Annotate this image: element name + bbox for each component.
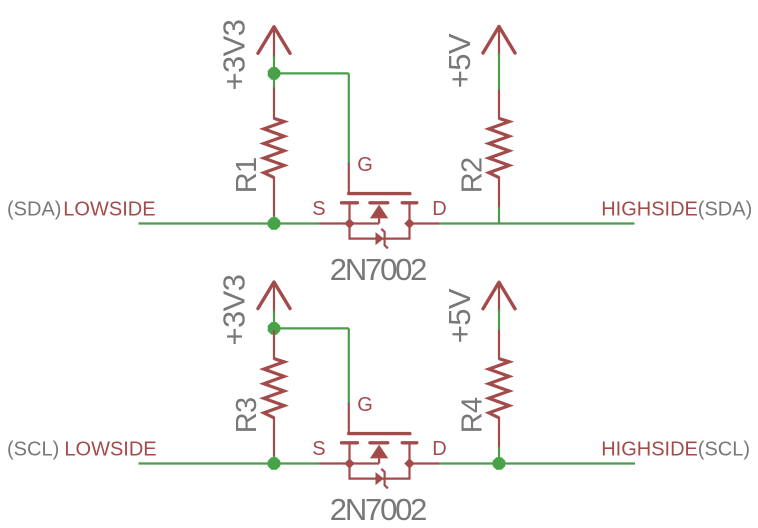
junction R1/LOWSIDE(SDA) — [268, 217, 281, 230]
wire R4 to HIGHSIDE(SCL) net — [498, 447, 500, 464]
resistor R2 — [489, 90, 509, 208]
svg-text:G: G — [357, 154, 373, 176]
wire +3V3 to junction (SDA) — [273, 56, 275, 73]
wire +5V to R2 — [498, 53, 500, 91]
svg-text:R4: R4 — [456, 397, 488, 433]
wire junction to gate column (SDA) — [274, 72, 349, 74]
svg-text:R1: R1 — [231, 158, 263, 193]
junction +3V3/R3/gate (SCL) — [268, 322, 281, 335]
wire LOWSIDE(SCL) net — [139, 462, 320, 464]
svg-text:+3V3: +3V3 — [216, 275, 251, 346]
junction R3/LOWSIDE(SCL) — [268, 457, 281, 470]
wire R1 to LOWSIDE(SDA) net — [273, 216, 275, 224]
svg-text:(SCL): (SCL) — [698, 438, 750, 460]
wire HIGHSIDE(SDA) net — [440, 222, 635, 224]
resistor R4 — [489, 330, 509, 448]
svg-text:(SDA): (SDA) — [698, 198, 752, 220]
transistor Q1 2N7002 — [320, 163, 440, 248]
svg-text:R2: R2 — [456, 158, 488, 193]
wire down to Q1 gate — [348, 73, 350, 164]
svg-text:HIGHSIDE: HIGHSIDE — [601, 438, 698, 460]
svg-text:R3: R3 — [231, 398, 263, 433]
wire R3 to LOWSIDE(SCL) net — [273, 456, 275, 464]
svg-text:G: G — [357, 394, 373, 416]
svg-text:+5V: +5V — [442, 288, 477, 343]
wire down to Q2 gate — [348, 328, 350, 404]
svg-text:S: S — [312, 198, 325, 220]
power symbol +5V (SDA section) — [483, 27, 515, 56]
junction +3V3/R1/gate (SDA) — [268, 67, 281, 80]
svg-text:S: S — [312, 438, 325, 460]
svg-text:LOWSIDE: LOWSIDE — [64, 438, 156, 460]
svg-text:(SDA): (SDA) — [7, 198, 61, 220]
svg-text:2N7002: 2N7002 — [330, 252, 426, 287]
svg-text:D: D — [432, 198, 446, 220]
wire junction to R1 — [273, 73, 275, 88]
svg-text:+5V: +5V — [442, 33, 477, 88]
svg-text:+3V3: +3V3 — [216, 20, 251, 91]
wire junction to gate column (SCL) — [274, 327, 349, 329]
junction R4/HIGHSIDE(SCL) — [493, 457, 506, 470]
transistor Q2 2N7002 — [320, 403, 440, 488]
power symbol +3V3 (SCL section) — [258, 282, 290, 313]
power symbol +5V (SCL section) — [483, 282, 515, 311]
svg-text:HIGHSIDE: HIGHSIDE — [601, 198, 698, 220]
resistor R3 — [264, 330, 284, 457]
wire +3V3 to junction (SCL) — [273, 311, 275, 328]
svg-text:LOWSIDE: LOWSIDE — [63, 198, 155, 220]
resistor R1 — [264, 88, 284, 217]
svg-text:2N7002: 2N7002 — [330, 492, 426, 527]
power symbol +3V3 (SDA section) — [258, 27, 290, 58]
wire LOWSIDE(SDA) net — [139, 222, 320, 224]
wire R2 to HIGHSIDE(SDA) net — [498, 207, 500, 224]
svg-text:(SCL): (SCL) — [7, 438, 59, 460]
svg-text:D: D — [432, 438, 446, 460]
wire +5V to R4 — [498, 310, 500, 331]
wire HIGHSIDE(SCL) net — [440, 462, 635, 464]
